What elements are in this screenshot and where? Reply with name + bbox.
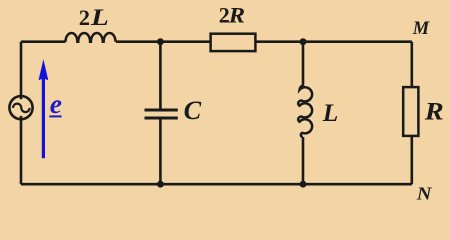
source wire stubs [20,95,23,119]
node junction dot top C [157,38,164,45]
node junction dot bottom C [157,181,164,188]
wire top-right segment [255,40,411,43]
svg-text:R: R [228,3,245,28]
svg-text:R: R [424,99,444,126]
node junction dot top L [300,38,307,45]
svg-text:2: 2 [79,5,90,30]
resistor 2R [211,34,256,51]
inductor L branch wire upper [302,42,305,86]
svg-text:L: L [322,100,339,127]
wire bottom [21,183,412,186]
wire left side [20,42,23,185]
capacitor C plates [145,110,178,118]
wire top-left segment [21,40,66,43]
svg-text:L: L [90,5,109,30]
inductor 2L [66,33,116,42]
svg-text:N: N [416,184,433,204]
node junction dot bottom L [300,181,307,188]
resistor R [403,87,418,136]
wire right side [410,42,413,185]
capacitor C branch wire lower [159,120,162,185]
source U1 (AC) circle [9,96,32,119]
svg-text:C: C [184,95,203,125]
arrow e (emf direction) [42,76,45,158]
label e underline [49,115,61,117]
svg-text:e: e [50,88,62,119]
inductor L branch wire lower [302,137,305,184]
source sine symbol [13,104,30,112]
inductor L coil [298,86,312,137]
svg-text:M: M [412,19,430,39]
wire top-middle segment [116,40,211,43]
capacitor C branch wire upper [159,42,162,109]
